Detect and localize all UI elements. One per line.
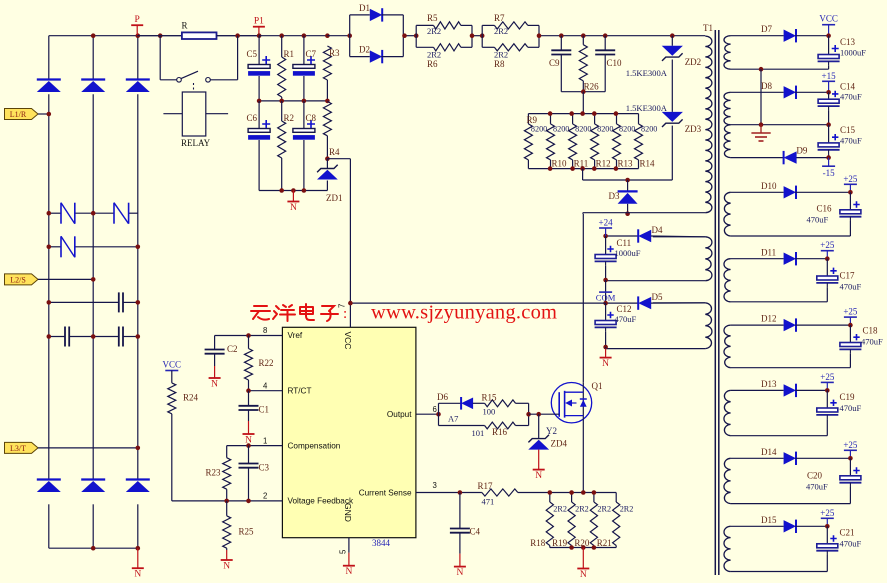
svg-text:8: 8	[263, 326, 267, 335]
junction row2 rail1	[47, 245, 52, 250]
svg-text:ZD4: ZD4	[551, 439, 568, 449]
wire output pin row	[416, 413, 439, 415]
wire W8 bottom	[731, 503, 851, 505]
ground symbol	[760, 125, 762, 133]
svg-text:R7: R7	[494, 13, 505, 23]
junction R9bot a	[548, 166, 553, 171]
junction W1 bottom	[759, 67, 764, 72]
svg-text:D5: D5	[652, 292, 663, 302]
junction R9bot b	[570, 166, 575, 171]
relay switch branch	[159, 36, 161, 80]
svg-text:8200: 8200	[575, 125, 591, 134]
resistor R3	[323, 46, 331, 80]
transformer secondary winding W9	[724, 526, 731, 571]
resistor R8	[482, 46, 494, 48]
capacitor C14	[828, 92, 830, 99]
diode bridge bottom D-d	[37, 478, 61, 480]
surge arrester row2	[60, 236, 62, 257]
transformer secondary winding W4	[724, 192, 731, 236]
svg-text:D3: D3	[609, 191, 620, 201]
wire W to D10	[731, 191, 784, 193]
junction D12 node	[848, 323, 853, 328]
svg-text:2R2: 2R2	[427, 50, 441, 60]
wire D1D2 merge	[402, 15, 404, 57]
ground port N filter	[292, 191, 294, 202]
svg-text:R9: R9	[527, 115, 538, 125]
wire bus P to R	[137, 35, 182, 37]
junction senseb a	[569, 545, 574, 550]
svg-text:R26: R26	[584, 82, 600, 92]
svg-text:2R2: 2R2	[494, 26, 508, 36]
svg-text:N: N	[223, 562, 230, 572]
svg-text:R24: R24	[183, 393, 199, 403]
wire pin8 Vref	[249, 335, 283, 337]
wire W6 bottom	[731, 367, 851, 369]
svg-text:470uF: 470uF	[840, 403, 862, 413]
svg-text:VCC: VCC	[343, 332, 353, 350]
diode bridge bottom D-f	[126, 478, 150, 480]
junction mid R4	[325, 99, 330, 104]
capacitor C12	[605, 303, 607, 320]
junction D10 node	[848, 190, 853, 195]
diode D15	[784, 520, 796, 532]
resistor R1	[281, 36, 283, 57]
wire relay coil left stub	[163, 113, 182, 115]
wire auxA bottom	[606, 280, 706, 282]
diode D8	[784, 86, 796, 98]
diode D9	[783, 151, 785, 164]
svg-text:Compensation: Compensation	[288, 441, 341, 450]
svg-text:R: R	[182, 21, 188, 31]
svg-text:A7: A7	[448, 414, 458, 424]
transformer secondary winding W5	[724, 259, 731, 302]
wire bus C5-R3 section	[259, 35, 327, 37]
svg-text:R19: R19	[552, 538, 568, 548]
resistor R19	[571, 493, 573, 503]
svg-text:D11: D11	[761, 248, 776, 258]
wire auxA top	[653, 236, 706, 238]
junction C4	[458, 490, 463, 495]
wire primary bottom	[583, 212, 706, 214]
svg-text:D10: D10	[761, 181, 777, 191]
power port +25 c	[849, 317, 851, 325]
junction D1D2 out	[402, 33, 407, 38]
junction D4 node	[603, 234, 608, 239]
svg-text:470uF: 470uF	[861, 337, 883, 347]
power port +25 d	[826, 382, 828, 390]
junction R5R6 out	[470, 33, 475, 38]
svg-text:R17: R17	[478, 481, 494, 491]
svg-text:T1: T1	[703, 23, 713, 33]
svg-text:R15: R15	[482, 393, 498, 403]
wire W to D13	[731, 389, 784, 391]
svg-text:R1: R1	[284, 49, 295, 59]
svg-text:R11: R11	[574, 159, 589, 169]
svg-text:+25: +25	[820, 372, 835, 382]
junction bus R1	[279, 33, 284, 38]
junction R7R8 out	[537, 33, 542, 38]
junction bus rail3 P	[136, 33, 141, 38]
resistor R24	[171, 371, 173, 383]
wire R9bus down to clamp row	[582, 169, 584, 180]
resistor R17	[482, 489, 518, 496]
wire top bus left section	[49, 35, 182, 37]
svg-text:C3: C3	[259, 463, 270, 473]
wire bottom bus of bridge	[49, 547, 138, 549]
svg-text::: :	[343, 306, 347, 322]
wire snubber bottom	[561, 91, 605, 93]
wire R9-R14 bottom bus	[528, 168, 638, 170]
svg-text:R3: R3	[329, 48, 340, 58]
svg-text:+25: +25	[820, 508, 835, 518]
svg-text:C21: C21	[840, 528, 855, 538]
wire R7R8 brackets	[481, 25, 483, 47]
junction rowB rail2	[91, 334, 96, 339]
svg-text:R13: R13	[618, 159, 634, 169]
svg-text:Output: Output	[387, 410, 412, 419]
svg-text:470uF: 470uF	[840, 282, 862, 292]
capacitor C21	[826, 526, 828, 544]
wire W to D14	[731, 457, 784, 459]
diode D4	[606, 235, 639, 237]
svg-text:N: N	[535, 471, 542, 481]
svg-text:D7: D7	[761, 24, 772, 34]
capacitor C20	[849, 458, 851, 476]
junction R5R6 in	[414, 33, 419, 38]
svg-text:+25: +25	[843, 307, 858, 317]
svg-text:2R2: 2R2	[427, 26, 441, 36]
wire ground tap row	[731, 124, 829, 126]
svg-text:GND: GND	[343, 503, 353, 522]
wire VCC line from R4	[349, 159, 351, 303]
svg-text:D8: D8	[761, 81, 772, 91]
junction R9bus a	[548, 111, 553, 116]
svg-text:R4: R4	[329, 147, 340, 157]
junction R7R8 in	[480, 33, 485, 38]
junction RTCT	[246, 388, 251, 393]
ground port N pin5	[348, 553, 350, 566]
capacitor rowA	[118, 292, 120, 312]
zener ZD4	[538, 414, 540, 438]
svg-text:R10: R10	[552, 159, 568, 169]
resistor R11	[572, 114, 574, 124]
diode bridge top D-a	[37, 78, 61, 80]
transformer secondary winding W1	[724, 36, 731, 70]
svg-text:+15: +15	[822, 71, 837, 81]
junction fb R23	[224, 499, 229, 504]
junction comp C3	[246, 443, 251, 448]
capacitor C8	[303, 101, 305, 129]
wire mid bus	[259, 100, 327, 102]
svg-text:R18: R18	[530, 538, 546, 548]
resistor R18	[549, 493, 551, 503]
relay switch blade	[181, 71, 198, 78]
wire R7R8 to snubber bus	[539, 35, 705, 37]
capacitor C16	[849, 192, 851, 210]
junction bus relay branch	[158, 33, 163, 38]
junction COM node	[603, 301, 608, 306]
wire R4 to VCC line	[327, 158, 350, 160]
port L2/S	[5, 274, 39, 285]
junction mid C5	[257, 99, 262, 104]
junction bottom R2	[279, 188, 284, 193]
svg-text:P1: P1	[254, 17, 264, 27]
junction R9bot feed	[580, 166, 585, 171]
wire D6R16 left bracket	[438, 403, 440, 425]
svg-text:8200: 8200	[531, 125, 547, 134]
transformer aux winding A	[705, 237, 712, 281]
svg-text:-15: -15	[823, 168, 835, 178]
capacitor C11	[605, 236, 607, 255]
resistor R15	[485, 400, 516, 407]
svg-text:R2: R2	[284, 113, 295, 123]
resistor R10	[550, 114, 552, 124]
wire L2/S to rail2	[38, 278, 93, 280]
wire bus R3 to D1D2	[327, 35, 349, 37]
power port -15	[828, 158, 830, 167]
capacitor C10	[604, 36, 606, 51]
transformer secondary winding W8	[724, 458, 731, 503]
power port P	[136, 25, 138, 36]
relay coil RELAY	[182, 92, 206, 136]
svg-text:Q1: Q1	[592, 381, 603, 391]
wire top bus after R	[217, 35, 259, 37]
resistor R6	[416, 46, 433, 48]
wire rail phase2	[92, 36, 94, 80]
capacitor C13	[828, 36, 830, 55]
svg-text:8200: 8200	[619, 125, 635, 134]
resistor R2	[281, 101, 283, 121]
junction C14 C15	[826, 122, 831, 127]
wire W to D11	[731, 258, 784, 260]
svg-text:C5: C5	[247, 49, 258, 59]
resistor R23	[223, 458, 231, 490]
svg-text:4: 4	[263, 382, 268, 391]
svg-text:2R2: 2R2	[597, 505, 611, 514]
svg-text:VCC: VCC	[163, 360, 182, 370]
junction R4 out	[325, 156, 330, 161]
junction bus rail2	[91, 33, 96, 38]
svg-text:1: 1	[263, 437, 267, 446]
junction sense b	[569, 490, 574, 495]
svg-text:D14: D14	[761, 447, 777, 457]
diode D1	[350, 14, 370, 16]
wire pin3 row	[416, 492, 482, 494]
wire drain rail	[582, 214, 584, 383]
junction C11 bottom	[603, 278, 608, 283]
power port +25 a	[849, 184, 851, 192]
wire W to D15	[731, 525, 784, 527]
junction D11 node	[825, 256, 830, 261]
ground port N C4	[459, 554, 461, 567]
wire auxB bottom	[606, 348, 706, 350]
capacitor rowB right	[118, 327, 120, 347]
wire C12 bottom to auxB	[605, 347, 607, 349]
svg-text:N: N	[211, 380, 218, 390]
diode D2	[350, 56, 370, 58]
svg-text:C13: C13	[840, 37, 856, 47]
wire W to D7	[731, 35, 784, 37]
junction R9bus feed	[580, 111, 585, 116]
port L1/R	[5, 109, 39, 120]
svg-text:ZD3: ZD3	[685, 124, 702, 134]
power port +25 e	[849, 450, 851, 458]
junction bus R3	[325, 33, 330, 38]
svg-text:+25: +25	[843, 174, 858, 184]
svg-text:C10: C10	[607, 58, 623, 68]
wire R9-R14 top bus	[528, 113, 638, 115]
wire gate row	[529, 413, 560, 415]
svg-text:101: 101	[472, 428, 485, 438]
svg-text:470uF: 470uF	[615, 314, 637, 324]
resistor R12	[594, 114, 596, 124]
power port COM	[605, 280, 607, 303]
ground port N C1	[248, 421, 250, 434]
junction rowA rail1	[47, 300, 52, 305]
wire center tap drop	[760, 69, 762, 125]
junction gate ZD4	[536, 412, 541, 417]
junction mid R2	[279, 99, 284, 104]
junction senseb n	[581, 545, 586, 550]
wire R5R6 to R7R8	[472, 35, 482, 37]
svg-text:470uF: 470uF	[840, 136, 862, 146]
svg-text:www.sjzyunyang.com: www.sjzyunyang.com	[371, 302, 557, 324]
capacitor C17	[826, 259, 828, 276]
resistor R25	[226, 501, 228, 516]
resistor R4	[323, 101, 331, 135]
wire R5R6 brackets	[415, 25, 417, 47]
svg-text:RELAY: RELAY	[181, 138, 211, 148]
svg-text:D9: D9	[796, 146, 807, 156]
resistor R22	[248, 336, 250, 349]
svg-text:C9: C9	[549, 58, 560, 68]
wire compensation corner	[226, 446, 228, 458]
diode D14	[784, 452, 796, 464]
svg-text:3844: 3844	[372, 538, 391, 548]
svg-text:N: N	[290, 203, 297, 213]
svg-text:C1: C1	[259, 405, 270, 415]
capacitor C1	[248, 391, 250, 406]
svg-text:D4: D4	[652, 225, 663, 235]
svg-text:5: 5	[339, 549, 348, 554]
wire W4 bottom	[731, 235, 851, 237]
junction Vref	[246, 333, 251, 338]
svg-text:2R2: 2R2	[553, 505, 567, 514]
resistor R26	[582, 36, 584, 45]
capacitor C3	[248, 446, 250, 464]
junction row1 rail1	[47, 211, 52, 216]
svg-text:C19: C19	[840, 392, 856, 402]
capacitor C7	[303, 36, 305, 65]
resistor R21	[615, 493, 617, 503]
wire D1D2 split	[349, 15, 351, 57]
junction rowA rail3	[136, 300, 141, 305]
junction +15 node	[826, 90, 831, 95]
svg-text:R14: R14	[640, 159, 656, 169]
svg-text:N: N	[345, 567, 352, 577]
wire R15R16 right bracket	[528, 403, 530, 425]
diode D13	[784, 384, 796, 396]
svg-text:C4: C4	[470, 527, 481, 537]
junction clamp D3	[625, 178, 630, 183]
wire pin1 Compensation	[227, 445, 283, 447]
svg-text:R22: R22	[259, 358, 274, 368]
svg-text:D13: D13	[761, 379, 777, 389]
svg-text:8200: 8200	[553, 125, 569, 134]
junction rowB rail1	[47, 334, 52, 339]
watermark chinese	[251, 304, 338, 321]
junction D14 node	[848, 456, 853, 461]
junction L1/R	[47, 112, 52, 117]
junction bottom bus rail2	[91, 546, 96, 551]
svg-text:6: 6	[433, 405, 437, 414]
svg-text:R12: R12	[596, 159, 611, 169]
svg-text:2R2: 2R2	[575, 505, 589, 514]
svg-text:1000uF: 1000uF	[840, 48, 866, 58]
wire W to D8	[731, 91, 784, 93]
ground port N C2	[214, 366, 216, 378]
wire R to P1	[217, 35, 259, 37]
junction sense a	[548, 490, 553, 495]
wire bottom bus C6-ZD1	[259, 190, 327, 192]
zener ZD3	[662, 112, 683, 122]
mosfet Q1	[551, 383, 591, 423]
transformer aux winding B	[705, 303, 712, 349]
transformer secondary winding W2	[724, 92, 731, 124]
resistor R7	[482, 24, 494, 26]
wire L3/T to rail3	[38, 447, 138, 449]
junction L3/T	[136, 446, 141, 451]
ground port N ZD4	[538, 450, 540, 470]
svg-text:1000uF: 1000uF	[615, 248, 641, 258]
resistor R14	[638, 114, 640, 124]
svg-text:470uF: 470uF	[807, 215, 829, 225]
transformer secondary winding W7	[724, 390, 731, 435]
diode D12	[784, 319, 796, 331]
svg-text:470uF: 470uF	[840, 92, 862, 102]
svg-text:C2: C2	[227, 344, 238, 354]
svg-text:2: 2	[263, 492, 267, 501]
relay switch contacts	[177, 78, 182, 83]
svg-text:C20: C20	[807, 471, 823, 481]
capacitor C9	[560, 36, 562, 51]
svg-text:8200: 8200	[597, 125, 613, 134]
junction R9bus d	[614, 111, 619, 116]
svg-text:R6: R6	[427, 59, 438, 69]
svg-text:D2: D2	[359, 45, 370, 55]
ic U1 3844 body	[282, 327, 416, 537]
svg-text:R16: R16	[492, 427, 508, 437]
surge arrester row1 right	[113, 203, 115, 224]
ground port N aux	[605, 349, 607, 358]
svg-text:C17: C17	[840, 271, 856, 281]
svg-text:Y2: Y2	[546, 426, 557, 436]
resistor R20	[593, 493, 595, 503]
junction bus C10	[603, 33, 608, 38]
svg-text:N: N	[602, 359, 609, 369]
diode D6	[439, 402, 462, 404]
resistor R	[182, 32, 217, 39]
surge arrester row1 left	[60, 203, 62, 224]
wire pin7 VCC stub	[349, 303, 351, 327]
wire W to D12	[731, 324, 784, 326]
svg-text:L3/T: L3/T	[10, 444, 26, 453]
transformer primary winding	[705, 36, 712, 213]
resistor R13	[616, 114, 618, 124]
junction bus R26	[581, 33, 586, 38]
svg-text:C12: C12	[617, 304, 632, 314]
diode D11	[784, 253, 796, 265]
